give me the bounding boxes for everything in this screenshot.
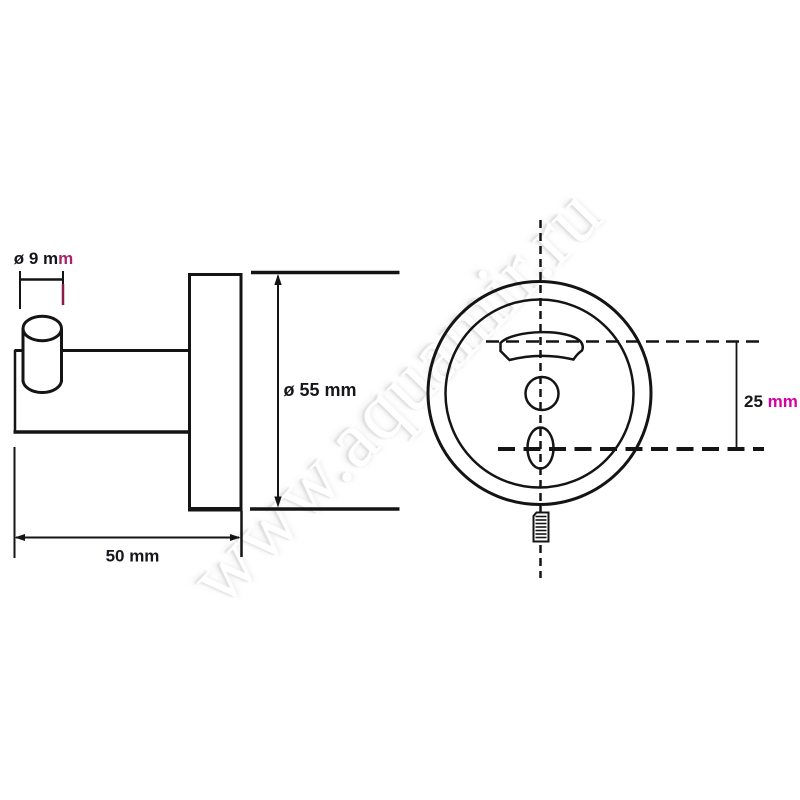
horizontal dashed centerline upper: [486, 340, 764, 343]
peg top ellipse: [23, 316, 62, 341]
peg cylinder left side: [22, 329, 25, 382]
center hole circle: [526, 377, 559, 410]
watermark www.aquamir.ru: [172, 169, 620, 623]
wall plate bottom edge thick: [188, 508, 243, 512]
horizontal dashed centerline lower thick: [498, 447, 764, 451]
svg-text:50 mm: 50 mm: [106, 547, 160, 566]
dim ø9 extension line right (dark red part): [62, 284, 65, 305]
mounting slot: [501, 332, 583, 360]
dim 50mm extension line left: [14, 447, 16, 558]
svg-text:25 mm: 25 mm: [744, 392, 798, 411]
dim 50mm arrowhead right: [230, 534, 241, 541]
arm top edge right segment: [61, 349, 189, 352]
svg-text:ø 9 mm: ø 9 mm: [14, 249, 74, 268]
dim ø55 bottom reference line: [250, 507, 400, 511]
dim ø9 extension line right (black part): [62, 271, 64, 284]
arm top edge left segment: [15, 349, 25, 352]
front view inner circle: [446, 300, 634, 488]
dim ø9 dimension line: [19, 278, 64, 281]
dim 50mm extension line right: [240, 511, 243, 557]
front view outer circle: [428, 282, 651, 505]
screw: [534, 513, 549, 542]
wall plate side view: [190, 275, 242, 509]
lower hole ellipse: [528, 428, 554, 469]
dim ø55 arrowhead down: [274, 497, 281, 508]
dim 50mm arrowhead left: [15, 534, 26, 541]
dim 50mm dimension line: [16, 537, 239, 539]
arm bottom edge: [14, 430, 190, 434]
vertical dashed centerline: [539, 220, 542, 578]
dim ø9 extension line left: [19, 271, 21, 309]
dim ø55 arrowhead up: [274, 274, 281, 285]
peg bottom arc: [23, 380, 62, 393]
dim ø55 top reference line: [251, 271, 400, 275]
dim 25mm dimension line: [736, 342, 738, 448]
svg-text:ø 55 mm: ø 55 mm: [283, 380, 356, 400]
peg cylinder right side: [60, 329, 63, 382]
dim ø55 vertical dimension line: [277, 276, 279, 505]
arm left edge: [14, 350, 17, 433]
